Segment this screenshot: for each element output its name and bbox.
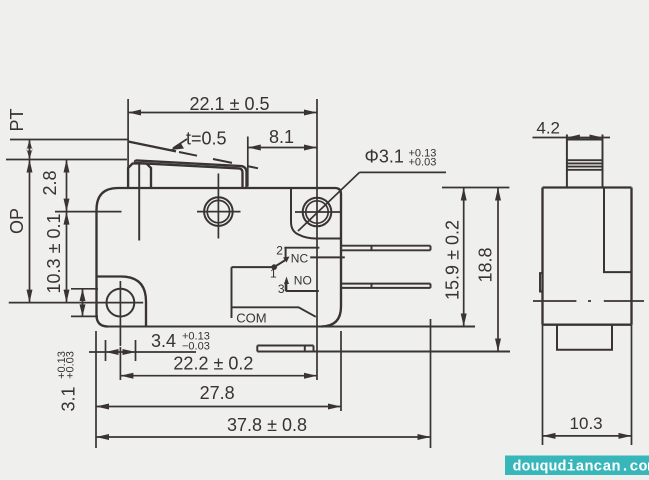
side view 10.3 extension lines	[543, 325, 632, 445]
left reference line B (lever operating position)	[6, 159, 127, 161]
plunger centerline inside body	[138, 164, 140, 241]
dim line 3.4	[89, 351, 196, 353]
dim line 3.1	[82, 289, 84, 317]
internal schematic: COM pole wire	[232, 267, 316, 318]
body bottom edge extending right as extension line for 15.9	[108, 326, 475, 328]
top-left hole outer circle	[204, 197, 233, 226]
NC terminal prong	[341, 246, 431, 251]
dim line 10.3±0.1	[66, 212, 68, 303]
svg-text:10.3: 10.3	[570, 414, 603, 433]
watermark strip	[505, 456, 649, 476]
bottom-left hole boss outline	[97, 277, 147, 327]
svg-text:4.2: 4.2	[536, 119, 560, 138]
bottom-left hole vertical centerline	[119, 281, 121, 346]
svg-text:−0.03: −0.03	[182, 341, 210, 353]
svg-text:douqudiancan.com: douqudiancan.com	[513, 459, 649, 476]
dim line 4.2	[533, 137, 611, 139]
bottom-left hole circle	[107, 289, 135, 317]
lever free position solid segment	[128, 142, 176, 152]
dim line 8.1	[248, 147, 317, 149]
svg-text:NC: NC	[291, 251, 309, 265]
internal schematic: moving contact arm with pivot dot	[274, 259, 287, 267]
svg-text:3.4: 3.4	[151, 331, 176, 351]
dim 3.1 extension lines	[71, 289, 98, 317]
svg-text:2: 2	[276, 244, 283, 258]
dim 8.1 left extension line	[247, 137, 249, 187]
svg-text:+0.03: +0.03	[65, 351, 77, 379]
svg-text:10.3 ± 0.1: 10.3 ± 0.1	[44, 214, 64, 294]
dim line 18.8	[497, 188, 499, 352]
dim line OP	[29, 160, 31, 303]
bottom hole centerline D	[9, 302, 143, 304]
side view body outline	[543, 188, 632, 325]
top-right boss outline	[291, 188, 341, 239]
top-right hole inner circle	[306, 201, 328, 223]
COM terminal blade under body	[257, 346, 510, 352]
dim 22.2 left extension line	[119, 347, 121, 380]
svg-text:t=0.5: t=0.5	[186, 129, 227, 149]
dim 27.8 extension lines	[96, 331, 341, 448]
top-left hole crosshair	[197, 174, 241, 239]
svg-text:18.8: 18.8	[476, 247, 496, 282]
top extension line for 15.9/18.8	[442, 187, 509, 189]
body left edge	[95, 210, 97, 315]
top-left hole inner circle	[207, 200, 229, 222]
svg-text:3.1: 3.1	[59, 386, 79, 411]
left reference line C (top holes centerline)	[55, 211, 122, 213]
dim line 37.8±0.8	[96, 436, 431, 438]
side view lower box	[557, 325, 612, 350]
internal schematic: NO contact arrow	[286, 283, 288, 291]
svg-text:27.8: 27.8	[200, 383, 235, 403]
svg-text:22.1 ± 0.5: 22.1 ± 0.5	[190, 94, 270, 114]
side view centerline dash-dot	[533, 300, 644, 302]
dim line 22.2±0.2	[120, 375, 317, 377]
plunger block on body top	[128, 164, 151, 189]
t=0.5 leader arrow	[173, 139, 187, 148]
dim line 2.8	[66, 160, 68, 212]
svg-text:15.9 ± 0.2: 15.9 ± 0.2	[443, 220, 463, 300]
side view button	[567, 135, 603, 188]
left reference line A (lever free position)	[10, 139, 128, 141]
internal schematic: terminal 2 stub	[284, 248, 319, 259]
side view left tab	[540, 273, 543, 291]
dim line 22.1	[128, 112, 317, 114]
dim 3.4 extension lines	[106, 340, 136, 361]
svg-text:1: 1	[270, 267, 277, 281]
svg-text:+0.03: +0.03	[409, 157, 437, 169]
dim 22.1 left extension line	[127, 99, 129, 168]
COM terminal end cap / 37.8 extension line	[430, 319, 432, 448]
side view cover step	[604, 188, 632, 273]
main switch body outline	[97, 188, 342, 327]
svg-text:PT: PT	[7, 108, 27, 131]
top-right hole horizontal crosshair	[295, 211, 342, 213]
svg-text:22.2 ± 0.2: 22.2 ± 0.2	[173, 354, 253, 374]
dim line 27.8	[96, 406, 341, 408]
body bottom-left corner	[97, 315, 109, 327]
lever free position dashed segments	[179, 152, 258, 168]
NO terminal prong	[341, 284, 431, 288]
svg-text:Φ3.1: Φ3.1	[365, 147, 404, 167]
leader line for hole diameter 3.1	[298, 172, 446, 231]
svg-text:3: 3	[278, 282, 285, 296]
internal schematic: terminal 3 stub	[286, 283, 319, 291]
lever operating position strip bottom edge	[135, 163, 243, 187]
internal schematic: NC wire	[310, 256, 345, 258]
lever operating position strip top edge with right curl	[136, 160, 247, 187]
svg-text:8.1: 8.1	[269, 127, 294, 147]
svg-text:COM: COM	[236, 310, 266, 325]
dim line 15.9±0.2	[463, 188, 465, 327]
lever left tip	[135, 160, 136, 163]
top-right hole outer circle	[303, 198, 332, 227]
dim line PT	[29, 140, 31, 160]
side view button hatch lines	[567, 160, 603, 170]
svg-text:NO: NO	[294, 274, 312, 288]
svg-text:2.8: 2.8	[40, 170, 60, 195]
svg-text:37.8 ± 0.8: 37.8 ± 0.8	[227, 415, 307, 435]
dim line 10.3	[543, 435, 632, 437]
shared extension line through right hole center	[316, 99, 318, 380]
svg-text:OP: OP	[7, 208, 27, 234]
